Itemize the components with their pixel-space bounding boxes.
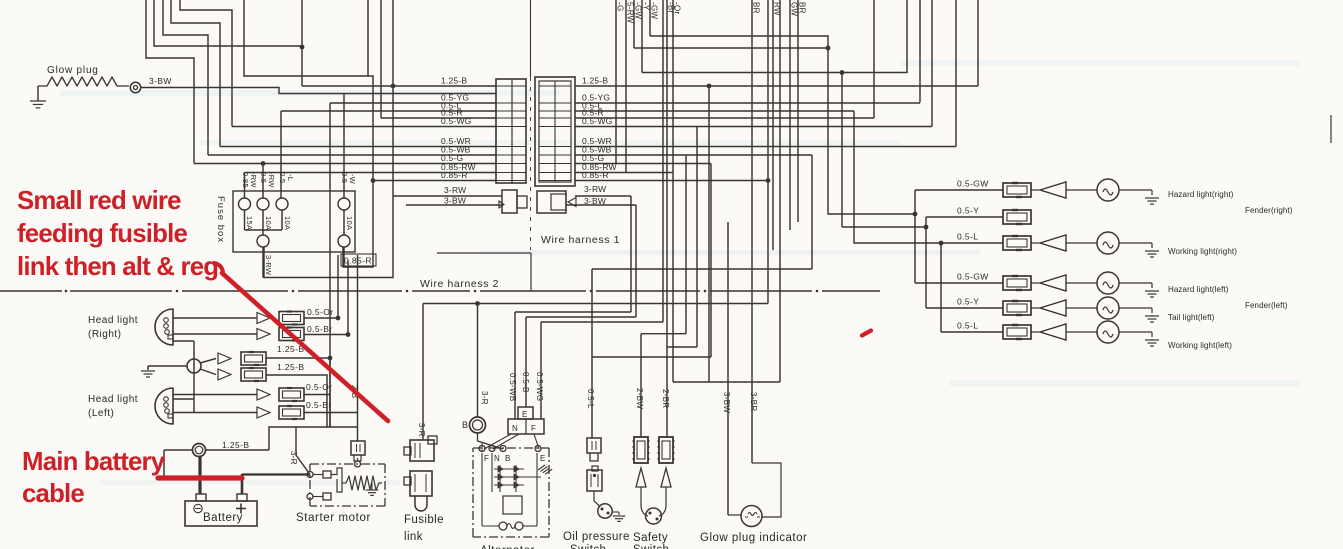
svg-text:0.85-R: 0.85-R bbox=[582, 170, 609, 180]
svg-text:Switch: Switch bbox=[633, 544, 669, 549]
svg-text:3-RW: 3-RW bbox=[444, 185, 466, 195]
svg-text:E: E bbox=[522, 410, 528, 419]
svg-text:Hazard light(right): Hazard light(right) bbox=[1168, 190, 1234, 199]
svg-text:-RW: -RW bbox=[249, 172, 258, 188]
svg-text:10A: 10A bbox=[345, 216, 354, 230]
svg-text:10A: 10A bbox=[264, 216, 273, 230]
svg-text:5-RW: 5-RW bbox=[626, 2, 635, 24]
svg-text:Battery: Battery bbox=[203, 512, 243, 524]
svg-text:3-R: 3-R bbox=[480, 391, 489, 405]
svg-text:(Right): (Right) bbox=[88, 329, 122, 340]
svg-text:Fender(left): Fender(left) bbox=[1245, 301, 1288, 310]
svg-text:0.5: 0.5 bbox=[340, 172, 349, 183]
svg-text:E: E bbox=[540, 454, 546, 463]
svg-text:1.25-B: 1.25-B bbox=[441, 76, 467, 86]
svg-text:0.5-GW: 0.5-GW bbox=[957, 179, 989, 189]
svg-text:N: N bbox=[494, 454, 500, 463]
svg-text:Head light: Head light bbox=[88, 315, 138, 326]
svg-text:-W: -W bbox=[348, 174, 357, 185]
svg-text:F: F bbox=[484, 454, 489, 463]
svg-text:0.5: 0.5 bbox=[278, 172, 287, 183]
svg-text:3-RW: 3-RW bbox=[584, 184, 606, 194]
svg-text:(Left): (Left) bbox=[88, 408, 114, 419]
svg-text:Small red wire: Small red wire bbox=[17, 187, 181, 215]
svg-text:15A: 15A bbox=[245, 216, 254, 230]
svg-text:0.5-Y: 0.5-Y bbox=[957, 206, 979, 216]
svg-text:3-BW: 3-BW bbox=[444, 196, 466, 206]
svg-text:3-BW: 3-BW bbox=[149, 76, 172, 86]
svg-text:Wire harness 2: Wire harness 2 bbox=[420, 278, 499, 290]
svg-text:0.5-WG: 0.5-WG bbox=[441, 116, 471, 126]
svg-text:0.5-L: 0.5-L bbox=[957, 321, 978, 331]
svg-text:10A: 10A bbox=[283, 216, 292, 230]
svg-text:-G: -G bbox=[616, 2, 625, 12]
svg-text:Hazard light(left): Hazard light(left) bbox=[1168, 285, 1229, 294]
svg-text:Working light(left): Working light(left) bbox=[1168, 341, 1232, 350]
svg-text:F: F bbox=[531, 424, 536, 433]
svg-text:3-BW: 3-BW bbox=[584, 196, 606, 206]
svg-text:Head light: Head light bbox=[88, 394, 138, 405]
svg-text:-GW: -GW bbox=[634, 2, 643, 19]
svg-text:2-BR: 2-BR bbox=[661, 389, 670, 408]
svg-text:-L: -L bbox=[286, 174, 295, 181]
svg-text:Starter motor: Starter motor bbox=[296, 512, 371, 524]
svg-text:-RW: -RW bbox=[267, 172, 276, 188]
svg-text:Safety: Safety bbox=[633, 532, 668, 544]
svg-text:0.5-L: 0.5-L bbox=[586, 389, 595, 409]
svg-text:Oil pressure: Oil pressure bbox=[563, 531, 630, 543]
svg-text:Switch: Switch bbox=[570, 544, 606, 549]
svg-text:0.85-R: 0.85-R bbox=[441, 170, 468, 180]
svg-text:-GW: -GW bbox=[650, 2, 659, 19]
svg-text:BR: BR bbox=[798, 2, 807, 14]
svg-text:Tail light(left): Tail light(left) bbox=[1168, 313, 1215, 322]
svg-text:B: B bbox=[505, 454, 511, 463]
svg-text:Glow plug: Glow plug bbox=[47, 65, 99, 76]
svg-text:BR: BR bbox=[752, 2, 761, 14]
svg-text:0.5-WG: 0.5-WG bbox=[535, 372, 544, 401]
svg-text:0.85: 0.85 bbox=[241, 172, 250, 188]
svg-text:Working light(right): Working light(right) bbox=[1168, 247, 1237, 256]
svg-text:3-BR: 3-BR bbox=[749, 392, 758, 411]
svg-text:0.5-Or: 0.5-Or bbox=[306, 382, 333, 392]
svg-text:0.5-WB: 0.5-WB bbox=[508, 373, 517, 401]
svg-text:0.5-WG: 0.5-WG bbox=[582, 116, 612, 126]
svg-text:1.25-B: 1.25-B bbox=[277, 362, 304, 372]
svg-text:Fuse box: Fuse box bbox=[215, 196, 226, 243]
svg-text:B: B bbox=[462, 420, 468, 430]
svg-text:1.25-B: 1.25-B bbox=[222, 440, 249, 450]
svg-text:0.5-GW: 0.5-GW bbox=[957, 272, 989, 282]
svg-text:0.5-Br: 0.5-Br bbox=[307, 324, 333, 334]
svg-text:0.5-B: 0.5-B bbox=[521, 372, 530, 393]
svg-text:0.5-L: 0.5-L bbox=[957, 232, 978, 242]
svg-text:0.5: 0.5 bbox=[259, 172, 268, 183]
svg-text:3-RW: 3-RW bbox=[264, 255, 273, 276]
svg-text:Fender(right): Fender(right) bbox=[1245, 206, 1293, 215]
svg-text:3-BW: 3-BW bbox=[722, 392, 731, 413]
svg-text:3-R: 3-R bbox=[417, 423, 426, 437]
svg-text:-Or: -Or bbox=[673, 2, 682, 14]
svg-text:GW: GW bbox=[790, 2, 799, 17]
svg-text:N: N bbox=[512, 424, 518, 433]
svg-text:0.5-Or: 0.5-Or bbox=[307, 307, 334, 317]
svg-text:feeding fusible: feeding fusible bbox=[17, 220, 187, 248]
svg-text:-Y: -Y bbox=[642, 2, 651, 11]
svg-text:Alternator: Alternator bbox=[480, 545, 535, 549]
svg-text:link then alt & reg: link then alt & reg bbox=[17, 253, 218, 281]
svg-text:Fusible: Fusible bbox=[404, 514, 444, 526]
svg-text:Glow plug indicator: Glow plug indicator bbox=[700, 532, 807, 544]
svg-text:Wire harness 1: Wire harness 1 bbox=[541, 234, 620, 246]
svg-text:3-R: 3-R bbox=[289, 451, 298, 465]
svg-text:2-BW: 2-BW bbox=[635, 388, 644, 409]
svg-text:link: link bbox=[404, 531, 423, 543]
svg-text:cable: cable bbox=[22, 480, 84, 508]
svg-text:1.25-B: 1.25-B bbox=[582, 76, 608, 86]
svg-text:0.5-Y: 0.5-Y bbox=[957, 297, 979, 307]
svg-text:Main battery: Main battery bbox=[22, 448, 166, 476]
